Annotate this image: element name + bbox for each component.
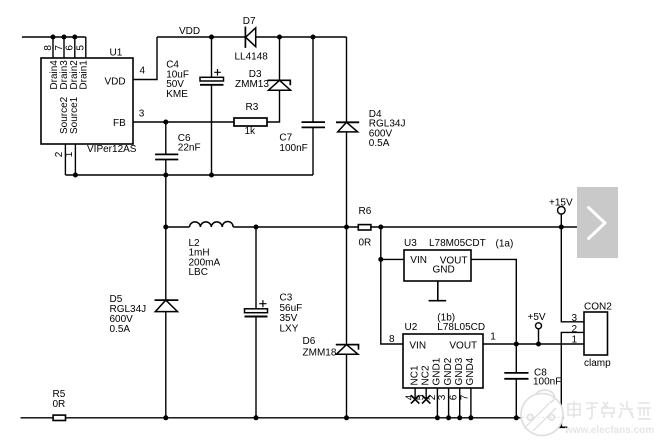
wire D3 top lead <box>279 37 281 80</box>
svg-text:1: 1 <box>64 151 75 157</box>
diode D5 <box>155 299 179 301</box>
wire rail to L2 node <box>165 175 167 227</box>
wire pin6 stub <box>74 37 76 58</box>
svg-text:ZMM13: ZMM13 <box>235 79 269 90</box>
wire bottom rail right <box>66 417 562 419</box>
svg-text:Source1: Source1 <box>69 96 80 134</box>
capacitor C3 leads <box>255 227 257 418</box>
wire D5 top lead <box>165 227 167 300</box>
rotated pin labels <box>43 45 476 401</box>
svg-text:3: 3 <box>572 313 578 324</box>
svg-text:8: 8 <box>389 334 395 345</box>
svg-text:U3: U3 <box>404 238 417 249</box>
wire U2 GND2 stub <box>448 388 450 418</box>
wire +15V rail <box>371 226 577 228</box>
wire D6 top lead <box>346 227 348 345</box>
svg-text:6: 6 <box>65 45 76 51</box>
capacitor C8 <box>515 344 517 418</box>
diode D6 zener <box>336 345 359 350</box>
svg-text:D7: D7 <box>243 16 256 27</box>
svg-text:KME: KME <box>166 89 188 100</box>
svg-text:FB: FB <box>113 118 126 129</box>
svg-text:0.5A: 0.5A <box>369 138 390 149</box>
svg-text:35V: 35V <box>280 313 298 324</box>
svg-text:0R: 0R <box>359 238 372 249</box>
svg-text:R3: R3 <box>246 102 259 113</box>
svg-text:5: 5 <box>76 45 87 51</box>
svg-text:22nF: 22nF <box>178 143 201 154</box>
capacitor C6 <box>155 154 178 159</box>
resistor R6 <box>358 225 371 230</box>
wire pin1 stub <box>74 144 76 175</box>
wire source rail <box>65 174 313 176</box>
wire CON2 pin2 <box>561 332 584 417</box>
svg-text:GND3: GND3 <box>454 357 465 385</box>
svg-text:U2: U2 <box>405 322 418 333</box>
svg-text:7: 7 <box>460 394 471 400</box>
inductor L2 <box>190 222 234 228</box>
capacitor C3 plates <box>245 309 268 313</box>
wire FB <box>133 121 234 123</box>
wire pin2 stub <box>64 144 66 175</box>
svg-text:VIPer12AS: VIPer12AS <box>87 144 137 155</box>
svg-text:ZMM18: ZMM18 <box>303 347 337 358</box>
wire U2 GND1 stub <box>436 388 438 418</box>
wire U2 GND4 stub <box>470 388 472 418</box>
svg-text:LXY: LXY <box>280 323 299 334</box>
svg-text:VIN: VIN <box>409 340 426 351</box>
svg-text:U1: U1 <box>110 48 123 59</box>
svg-text:3: 3 <box>437 394 448 400</box>
ui next arrow <box>577 187 618 258</box>
no-connect X NC2 <box>422 395 430 403</box>
svg-text:D6: D6 <box>303 336 316 347</box>
svg-text:3: 3 <box>139 109 145 120</box>
wire +5V pin1 <box>483 343 584 345</box>
svg-text:0.5A: 0.5A <box>110 324 131 335</box>
svg-text:(1a): (1a) <box>496 239 514 250</box>
wire R6 output riser <box>381 227 403 344</box>
svg-text:VOUT: VOUT <box>449 340 477 351</box>
diode D3 <box>269 80 291 90</box>
wire D4 bottom lead <box>346 132 348 227</box>
svg-text:100nF: 100nF <box>279 143 307 154</box>
svg-text:VDD: VDD <box>179 26 200 37</box>
resistor R3 <box>234 118 267 126</box>
svg-text:VDD: VDD <box>105 77 126 88</box>
svg-text:+5V: +5V <box>528 312 546 323</box>
watermark text 电子发烧友 <box>568 401 651 419</box>
svg-text:100nF: 100nF <box>533 377 561 388</box>
svg-text:1: 1 <box>490 331 496 342</box>
svg-text:4: 4 <box>140 65 146 76</box>
svg-text:VIN: VIN <box>410 255 427 266</box>
svg-text:2: 2 <box>427 394 438 400</box>
wire FB to C6 <box>165 122 167 154</box>
wire U2 NC1 stub <box>414 388 416 400</box>
svg-text:LBC: LBC <box>189 267 208 278</box>
svg-text:R6: R6 <box>359 206 372 217</box>
svg-text:1: 1 <box>572 335 578 346</box>
capacitor C4 leads <box>211 37 213 175</box>
svg-text:+15V: +15V <box>549 197 573 208</box>
capacitor C4 plus <box>214 69 221 76</box>
capacitor C4 plates <box>200 77 224 81</box>
svg-text:GND: GND <box>433 264 455 275</box>
svg-text:0R: 0R <box>53 399 66 410</box>
wire D5 bottom lead <box>165 312 167 418</box>
capacitor C7 <box>312 37 314 175</box>
wire C6 bottom <box>165 160 167 176</box>
wire L2 left lead <box>166 226 190 228</box>
resistor R5 <box>53 415 65 420</box>
op-amp U1 body <box>41 58 133 144</box>
svg-text:6: 6 <box>448 394 459 400</box>
svg-text:GND4: GND4 <box>465 357 476 385</box>
svg-text:NC1: NC1 <box>409 365 420 385</box>
wire CON2 pin3 <box>561 227 584 322</box>
wire U2 GND3 stub <box>459 388 461 418</box>
svg-text:Drain1: Drain1 <box>79 60 90 90</box>
watermark logo elecfans <box>521 390 563 435</box>
wire U3 VIN <box>381 258 404 260</box>
diode D4 <box>336 121 359 123</box>
svg-text:8: 8 <box>43 45 54 51</box>
op-amp U2 body <box>403 334 483 388</box>
svg-text:GND1: GND1 <box>432 357 443 385</box>
svg-text:www.elecfans.com: www.elecfans.com <box>564 425 654 436</box>
wire pin7 stub <box>63 37 65 58</box>
svg-text:clamp: clamp <box>584 358 611 369</box>
svg-text:LL4148: LL4148 <box>235 52 269 63</box>
wire top-left input <box>22 36 86 38</box>
svg-text:L78M05CDT: L78M05CDT <box>429 238 486 249</box>
svg-text:2: 2 <box>572 324 578 335</box>
connector CON2 body <box>584 312 608 355</box>
node +15V terminal <box>558 207 566 215</box>
op-amp U3 body <box>404 250 471 281</box>
capacitor C3 plus <box>259 300 266 307</box>
svg-text:NC2: NC2 <box>420 365 431 385</box>
svg-text:4: 4 <box>405 394 416 400</box>
wire L2 right to R6 <box>233 226 358 228</box>
wire bottom rail <box>21 417 54 419</box>
svg-text:GND2: GND2 <box>443 357 454 385</box>
diode D7 <box>244 27 246 48</box>
node +5V terminal <box>536 323 542 329</box>
svg-text:5: 5 <box>416 394 427 400</box>
wire pin8 stub <box>52 37 54 58</box>
svg-text:L78L05CD: L78L05CD <box>437 322 485 333</box>
no-connect X NC1 <box>411 395 419 403</box>
svg-text:7: 7 <box>54 45 65 51</box>
svg-text:C7: C7 <box>279 132 292 143</box>
ground U3 <box>429 281 447 301</box>
wire pin5 stub <box>85 37 87 58</box>
svg-text:1k: 1k <box>245 126 257 137</box>
wire D6 bottom lead <box>346 354 348 418</box>
ground clamp return <box>556 418 568 428</box>
wire pin4 VDD <box>133 37 157 80</box>
wire D4 top lead <box>346 37 348 122</box>
wire R3 to D3 <box>267 90 280 122</box>
wire U3 VOUT riser <box>471 259 516 344</box>
wire U2 NC2 stub <box>425 388 427 400</box>
wire VDD rail <box>157 36 347 38</box>
svg-text:CON2: CON2 <box>584 301 612 312</box>
